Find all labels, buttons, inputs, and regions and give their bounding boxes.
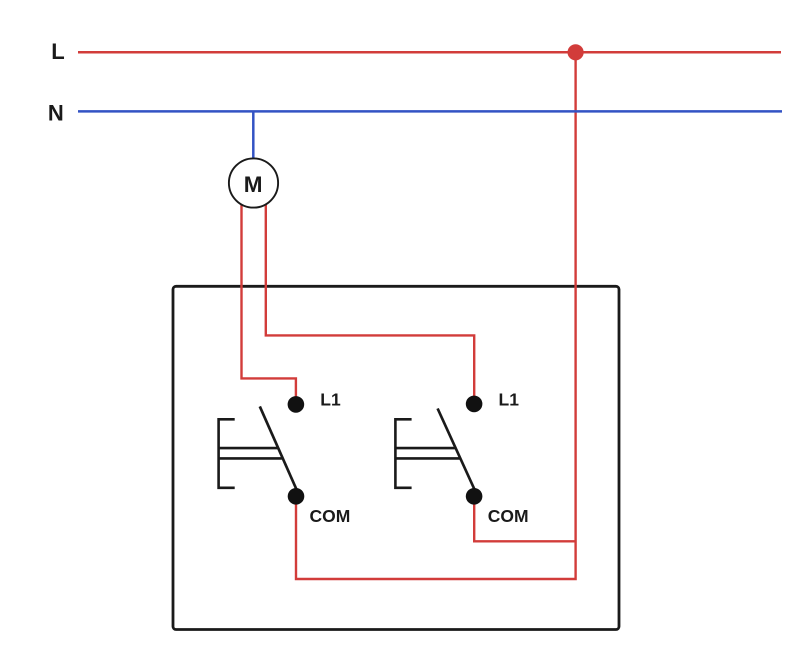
N line <box>78 110 782 113</box>
switch SW2 frame bracket <box>395 419 411 488</box>
switch SW1 lever <box>260 406 297 489</box>
svg-text:N: N <box>48 101 64 126</box>
switch enclosure box <box>173 286 619 629</box>
svg-text:M: M <box>244 172 263 197</box>
svg-text:COM: COM <box>310 506 351 526</box>
junction dot on L <box>568 44 584 60</box>
switch SW1 pole lines <box>219 448 282 458</box>
svg-text:L1: L1 <box>499 389 520 409</box>
switch SW1 frame bracket <box>219 419 235 488</box>
wire: motor right terminal to SW2 L1 <box>266 195 474 404</box>
terminal dot COM of SW1 <box>288 488 305 505</box>
terminal dot L1 of SW1 <box>288 396 305 413</box>
terminal dot COM of SW2 <box>466 488 483 505</box>
wire: COM of SW2 to live loop <box>474 496 575 541</box>
terminal dot L1 of SW2 <box>466 396 483 413</box>
L line <box>78 51 781 54</box>
motor M1 circle <box>229 158 278 207</box>
switch SW2 lever <box>438 409 475 490</box>
svg-text:L: L <box>51 39 64 64</box>
switch SW2 pole lines <box>395 448 460 458</box>
wire: N drop to motor <box>252 111 255 162</box>
svg-text:L1: L1 <box>320 389 341 409</box>
wire: live feed from L junction down to COM loop <box>296 53 576 580</box>
wire: motor left terminal to SW1 L1 <box>242 195 296 404</box>
svg-text:COM: COM <box>488 506 529 526</box>
